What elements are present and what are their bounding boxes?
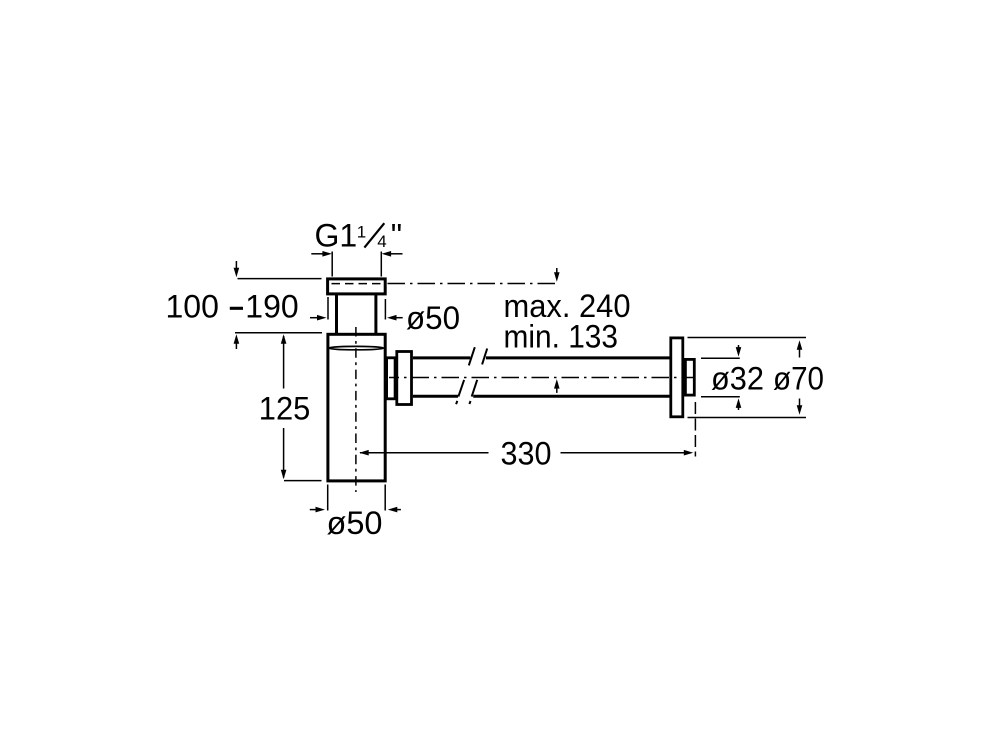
tailpipe left edge [335,295,338,335]
tailpipe right edge [374,295,377,335]
dimension 330 line left segment [360,452,489,454]
dimension 125 line upper segment [283,336,285,389]
dimension max min down arrow [554,268,560,282]
centerline vertical through trap [355,327,357,492]
dimension G1 1/4 extension line right [380,252,382,277]
dimension 100-190 bottom arrow [234,334,240,349]
dimension G1 1/4 right arrow [382,251,403,257]
svg-text:100: 100 [166,288,219,324]
horizontal pipe top edge [413,356,671,359]
svg-text:1: 1 [357,223,366,242]
dimension 100-190 bottom extension line [235,332,322,334]
dimension 100-190 top extension line [238,278,322,280]
dimension 125 top arrow [281,334,287,344]
svg-text:ø50: ø50 [406,300,460,336]
horizontal pipe bottom edge [413,395,671,398]
pipe break symbol [456,347,487,404]
svg-text:ø50: ø50 [327,505,383,541]
dimension diameter 50 top right arrow [387,315,403,321]
dimension 330 line right segment [561,452,689,454]
dimension diameter 50 bottom right arrow [388,507,401,513]
dimension diameter 50 top extension right [384,299,386,320]
trap body joint seam ellipse [329,346,384,349]
dimension diameter 50 top extension left [327,297,329,320]
dimension diameter 32 down arrow [736,345,742,357]
svg-text:G1: G1 [315,218,358,254]
svg-text:190: 190 [245,288,298,324]
basin connection flange [328,279,386,294]
dimension G1 1/4 extension line left [331,252,333,277]
centerline pipe horizontal [389,377,695,379]
dimension 330 right arrow [684,450,694,456]
svg-text:ø32: ø32 [711,361,764,397]
dimension diameter 32 bottom extension [701,396,740,398]
dimension diameter 32 top extension [701,357,740,359]
dimension diameter 70 top extension [688,337,807,339]
dimension diameter 32 up arrow [736,398,742,410]
svg-text:ø70: ø70 [773,361,824,397]
svg-text:4: 4 [377,232,386,251]
dimension max min up arrow [554,379,560,393]
dimension 100-190 top arrow [234,261,240,277]
dimension 125 line lower segment [283,428,285,478]
wall flange [671,338,683,417]
dimension 125 bottom extension line [284,480,322,482]
wall pipe stub [685,359,694,395]
trap body [328,334,385,481]
dimension G1 1/4 left arrow [311,251,332,257]
svg-text:330: 330 [501,435,552,471]
centerline top horizontal [388,283,557,285]
dimension diameter 50 top left arrow [310,315,327,321]
dimension diameter 50 bottom extension right [384,485,386,511]
dimension 125 bottom arrow [281,470,287,480]
compression nut [397,352,412,405]
dimension 330 dashed extension [694,402,696,457]
dimension diameter 50 bottom extension left [327,485,329,511]
label G1 1/4 inch [315,218,403,254]
svg-text:": " [391,218,402,254]
dimension diameter 70 down arrow [797,399,803,415]
thread dashed line inside flange [332,283,382,285]
outlet collar [387,358,396,399]
svg-text:125: 125 [259,390,311,426]
dimension diameter 50 bottom left arrow [310,507,325,513]
dimension 330 left arrow [359,450,369,456]
dimension diameter 70 bottom extension [688,417,807,419]
dimension diameter 70 up arrow [797,340,803,357]
svg-text:min. 133: min. 133 [504,318,619,354]
